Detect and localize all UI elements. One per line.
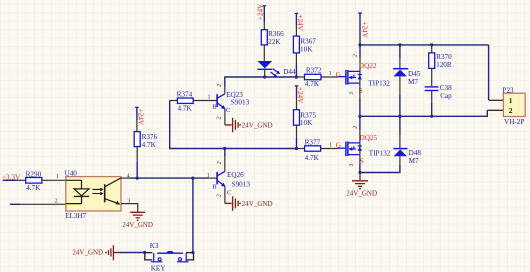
ground 24V_GND (DQ25): [346, 173, 377, 198]
svg-text:S9013: S9013: [231, 99, 250, 107]
svg-text:M7: M7: [409, 157, 419, 165]
power port 24V_GND (EQ26): [225, 196, 273, 211]
svg-text:TIP132: TIP132: [368, 80, 390, 88]
svg-text:EQ23: EQ23: [226, 91, 243, 99]
transistor EQ26 S9013: [212, 161, 250, 198]
R376 top pin: [136, 120, 138, 132]
svg-text:10K: 10K: [300, 119, 313, 127]
svg-text:C: C: [227, 189, 232, 196]
svg-text:TIP132: TIP132: [369, 150, 391, 158]
svg-text:EL3H7: EL3H7: [65, 212, 87, 220]
wire GND to K3: [120, 252, 145, 254]
resistor R375: [294, 110, 317, 127]
R372 left pin: [298, 76, 305, 78]
R372 right pin: [321, 76, 338, 78]
svg-text:24V_GND: 24V_GND: [122, 221, 153, 229]
node DQ25 source/D48/GND: [358, 171, 361, 174]
wire R376 to pin4 net: [136, 162, 138, 178]
resistor R372: [305, 67, 322, 89]
LED inside U40: [66, 180, 82, 203]
svg-text:B: B: [212, 183, 217, 190]
svg-text:10K: 10K: [300, 45, 313, 53]
phototransistor inside U40: [104, 184, 106, 202]
svg-text:24V_GND: 24V_GND: [242, 121, 273, 129]
wire DQ25 drain: [359, 116, 361, 130]
wire mid rail to P23 pin2: [360, 110, 487, 116]
node rail/D45: [398, 43, 401, 46]
svg-text:+24V: +24V: [360, 21, 368, 38]
svg-text:+24V: +24V: [257, 3, 265, 20]
svg-text:1: 1: [329, 71, 332, 77]
svg-text:+24V: +24V: [296, 14, 304, 31]
svg-text:1: 1: [329, 142, 332, 148]
svg-text:D45: D45: [408, 70, 421, 78]
svg-text:1: 1: [509, 96, 513, 105]
D44 bottom pin: [264, 70, 266, 77]
svg-text:+24V: +24V: [136, 109, 144, 126]
wire DQ22 source: [359, 83, 361, 99]
svg-text:EQ26: EQ26: [227, 171, 244, 179]
diode D48 M7: [360, 116, 421, 172]
svg-text:D44: D44: [283, 68, 296, 76]
node mid/C38: [430, 115, 433, 118]
node mid/D45: [398, 115, 401, 118]
svg-text:R366: R366: [268, 30, 284, 38]
R366 bottom pin: [263, 45, 265, 61]
node R367/gate1: [295, 75, 298, 78]
R375 bottom pin: [296, 125, 298, 138]
power port +24V (above R376): [135, 107, 144, 125]
svg-text:VH-2P: VH-2P: [504, 118, 524, 126]
R366 top pin: [263, 22, 265, 30]
node mid/DQ22 source: [358, 115, 361, 118]
wire pin4 to EQ26 base: [130, 177, 209, 179]
svg-text:R370: R370: [436, 53, 452, 61]
resistor R377: [305, 139, 321, 162]
R377 right pin: [321, 148, 338, 150]
wire EQ23 collector to gate1 net: [225, 77, 298, 87]
wire DQ25 source: [359, 155, 361, 165]
R376 bottom pin: [136, 147, 138, 162]
svg-text:R376: R376: [142, 133, 158, 141]
U40 pin4 stub: [121, 177, 130, 179]
LED D44: [258, 61, 296, 77]
U40 pin3 stub: [121, 204, 138, 212]
svg-text:U40: U40: [65, 169, 78, 177]
optocoupler U40 EL3H7: [65, 169, 122, 220]
svg-text:P23: P23: [502, 86, 514, 94]
svg-text:22K: 22K: [268, 38, 281, 46]
svg-text:M7: M7: [408, 78, 418, 86]
wire R290 to U40 pin1: [42, 179, 66, 181]
svg-text:C38: C38: [440, 84, 452, 92]
svg-text:4.7K: 4.7K: [26, 184, 41, 192]
capacitor C38: [425, 68, 452, 116]
node K3 branch: [191, 177, 194, 180]
MOSFET DQ22 TIP132: [336, 54, 391, 96]
svg-text:S: S: [359, 87, 363, 95]
EQ26 base pin: [209, 177, 217, 179]
R367 bottom pin: [295, 53, 297, 65]
EQ23 collector pin: [224, 87, 226, 94]
EQ26 emitter pin: [224, 186, 226, 203]
resistor R367: [293, 36, 316, 53]
svg-text:DQ22: DQ22: [359, 62, 377, 70]
R377 left pin: [298, 148, 305, 150]
R374 left pin: [170, 100, 178, 102]
node R376/pin4: [136, 177, 139, 180]
svg-text:4.7K: 4.7K: [142, 141, 157, 149]
node D44/gate1: [263, 75, 266, 78]
R367 top pin: [295, 26, 297, 36]
connector P23 VH-2P: [487, 86, 525, 126]
svg-text:120R: 120R: [436, 61, 452, 69]
switch K3 KEY: [145, 242, 194, 272]
svg-text:2: 2: [509, 106, 513, 115]
wire K3 branch vertical: [192, 178, 194, 252]
wire U40 pin2: [10, 203, 20, 205]
resistor R370: [429, 45, 452, 69]
svg-text:R374: R374: [177, 90, 193, 98]
svg-text:24V_GND: 24V_GND: [72, 248, 103, 256]
node rail/DQ22: [358, 43, 361, 46]
svg-text:4.7K: 4.7K: [178, 105, 193, 113]
resistor R290: [26, 171, 42, 192]
ground 24V_GND (U40 pin3): [122, 212, 153, 229]
svg-text:B: B: [212, 103, 217, 110]
svg-text:4.7K: 4.7K: [305, 154, 320, 162]
transistor EQ23 S9013: [212, 83, 249, 120]
svg-text:4.7K: 4.7K: [305, 80, 320, 88]
node K3 left: [143, 251, 146, 254]
svg-text:R377: R377: [305, 139, 321, 147]
svg-text:C: C: [226, 107, 231, 114]
svg-text:K3: K3: [150, 242, 159, 250]
wire R375 to gate2 net: [296, 138, 298, 149]
svg-text:+24V: +24V: [296, 87, 304, 104]
R375 top pin: [296, 98, 298, 110]
svg-text:DQ25: DQ25: [360, 134, 378, 142]
svg-text:24V_GND: 24V_GND: [242, 200, 273, 208]
node EQ26 collector: [223, 147, 226, 150]
node K3 right: [191, 251, 194, 254]
wire EQ26 collector to gate2 net: [224, 149, 226, 157]
power port 24V_GND (EQ23): [225, 118, 273, 133]
power port +24V (above R375): [295, 86, 304, 104]
svg-text:Cap: Cap: [440, 92, 452, 100]
diode D45 M7: [393, 45, 421, 116]
power port +24V (above DQ22): [358, 13, 368, 45]
light arrows: [92, 189, 100, 193]
wire +3.3V to R290: [19, 179, 26, 181]
wire +24V top rail: [360, 44, 489, 46]
svg-text:1: 1: [208, 94, 211, 100]
svg-text:24V_GND: 24V_GND: [346, 190, 377, 198]
svg-text:S9013: S9013: [232, 180, 251, 188]
resistor R374: [177, 90, 194, 112]
MOSFET DQ25 TIP132: [336, 125, 391, 167]
power port +24V (above R366): [257, 3, 267, 22]
R374 right pin: [193, 100, 217, 102]
wire R374 left to gate2 net: [170, 101, 298, 149]
resistor R366: [261, 30, 284, 47]
power port 24V_GND (K3 left): [72, 245, 120, 260]
svg-text:1: 1: [207, 173, 210, 179]
power port +3.3V: [2, 173, 21, 181]
svg-text:R290: R290: [26, 171, 42, 179]
node rail/R370: [430, 43, 433, 46]
wire R367 to gate1 net: [295, 65, 297, 77]
node R375 bottom: [295, 147, 298, 150]
svg-text:2: 2: [55, 199, 58, 205]
svg-text:R372: R372: [306, 67, 322, 75]
svg-text:1: 1: [56, 174, 59, 180]
wire rail to P23 pin1: [488, 45, 490, 100]
svg-text:KEY: KEY: [151, 265, 167, 272]
EQ23 emitter pin: [224, 109, 226, 125]
EQ26 collector pin: [224, 156, 226, 171]
resistor R376: [134, 132, 157, 149]
power port +24V (above R367): [295, 13, 304, 31]
wire DQ22 drain: [359, 45, 361, 58]
svg-text:G: G: [336, 71, 341, 79]
